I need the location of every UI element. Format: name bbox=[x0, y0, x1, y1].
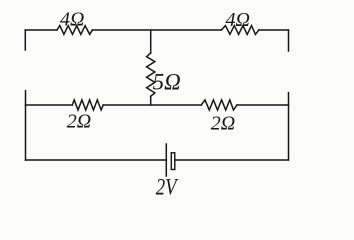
wire left terminal stub (top) bbox=[24, 30, 26, 50]
svg-text:2Ω: 2Ω bbox=[67, 111, 91, 133]
resistor R4 2Ω zigzag (middle left) bbox=[72, 100, 103, 110]
wire right rail (with stub above middle rail) bbox=[288, 93, 290, 160]
wire R3 bottom stub to middle rail bbox=[150, 96, 152, 105]
wire mid junction drop to R3 bbox=[150, 30, 152, 53]
svg-text:4Ω: 4Ω bbox=[226, 9, 250, 31]
resistor R3 5Ω zigzag (vertical) bbox=[147, 53, 155, 96]
resistor R5 2Ω zigzag (middle right) bbox=[201, 100, 237, 110]
resistor R1 4Ω zigzag (top left) bbox=[57, 26, 92, 35]
wire top-left segment bbox=[25, 29, 57, 31]
svg-text:2V: 2V bbox=[156, 175, 179, 200]
resistor R2 4Ω zigzag (top right) bbox=[221, 26, 258, 35]
wire right terminal stub (top) bbox=[288, 30, 290, 51]
wire middle-right segment bbox=[237, 104, 289, 106]
wire middle-left segment bbox=[26, 104, 73, 106]
wire middle-center segment bbox=[103, 104, 201, 106]
wire left rail (with stub above middle rail) bbox=[25, 91, 27, 160]
wire bottom-left segment bbox=[26, 159, 167, 161]
wire top-right segment bbox=[259, 29, 289, 31]
wire top-middle segment bbox=[92, 29, 221, 31]
battery BT1 long plate bbox=[165, 144, 167, 176]
svg-text:2Ω: 2Ω bbox=[211, 113, 235, 135]
svg-text:5Ω: 5Ω bbox=[153, 69, 181, 94]
wire bottom-right segment bbox=[175, 159, 289, 161]
battery BT1 short thick plate bbox=[171, 153, 175, 170]
svg-text:4Ω: 4Ω bbox=[60, 8, 84, 30]
